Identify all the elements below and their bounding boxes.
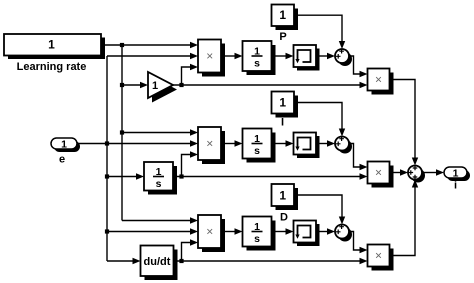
wire: saturation S2 to sum A2 [316,140,335,146]
sum A3 (round, + +) [335,224,352,241]
wire: saturation S3 to sum A3 [316,228,335,234]
wire: Learning rate output to product P1 input 1 [101,42,198,48]
svg-text:1: 1 [61,139,67,151]
derivative block du/dt [141,246,178,281]
saturation S3 (loop icon block) [294,221,320,247]
node: gain input junction [120,83,124,87]
integrator I3 (1/s) [243,217,276,251]
node: e bus to mid integrator junction [105,174,109,178]
svg-text:P: P [279,31,286,43]
product M3 (2-input multiply) [368,245,394,271]
gain block (triangle, value 1) [148,72,177,103]
wire: derivative tap to product P3 input 3 [182,239,199,261]
wire: e bus to integrator I4 input [107,173,144,179]
wire: e bus to derivative input [107,258,141,264]
wire: constant D to sum A3 top input [294,195,345,225]
svg-text:i: i [454,180,457,192]
wire: learning-rate bus to gain input [122,82,148,88]
wire: integrator I4 tap to product P2 input 3 [182,151,199,176]
wire: e bus to product P3 input 2 [107,228,198,234]
output port i (oval 1) [444,167,470,181]
wire: e bus to product P1 input 2 [107,53,198,59]
node: learning-rate row2 junction [120,130,124,134]
integrator I2 (1/s) [243,129,276,163]
sum A1 (round, + +) [335,49,352,66]
integrator I1 (1/s) [243,41,276,75]
wire: product P2 to integrator I2 [221,140,243,146]
constant block P (value 1) [272,5,299,31]
svg-text:1: 1 [279,8,286,22]
svg-text:×: × [375,166,382,180]
wire: integrator I2 to saturation S2 [272,140,294,146]
svg-text:e: e [59,154,65,166]
svg-text:s: s [254,58,260,70]
svg-text:D: D [280,212,288,224]
product M2 (2-input multiply) [368,162,394,188]
product P2 (3-input multiply) [198,127,225,164]
node: derivative output junction [179,259,183,263]
svg-text:s: s [254,233,260,245]
wire: saturation S1 to sum A1 [316,53,335,59]
wire: sum A1 output to product M1 upper input [349,56,368,77]
svg-text:×: × [206,137,213,151]
svg-text:s: s [156,178,162,190]
wire: gain output tap to product P1 input 3 [182,64,199,85]
product P1 (3-input multiply) [198,40,225,77]
constant block D (value 1) [272,184,299,210]
wire: product M2 output to final sum left input [390,169,409,175]
svg-text:1: 1 [48,38,55,52]
wire: sum A3 output to product M3 upper input [349,232,368,254]
wire: learning-rate bus to product P2 input 1 [122,129,198,135]
wire: final sum output to output port i [422,169,444,175]
svg-text:du/dt: du/dt [144,256,171,268]
wire: gain output bus to product M1 lower input [173,82,368,88]
constant block Learning rate (value 1) [4,34,105,59]
svg-text:×: × [206,225,213,239]
node: integrator I4 output junction [179,174,183,178]
svg-text:1: 1 [279,189,286,203]
wire: product M1 output to final sum top input [390,80,419,166]
product P3 (3-input multiply) [198,215,225,252]
wire: e vertical bus [106,56,108,261]
node: e bus row3 junction [105,229,109,233]
svg-text:×: × [206,49,213,63]
saturation S1 (loop icon block) [294,45,320,71]
svg-text:s: s [254,145,260,157]
constant block I (value 1) [272,92,299,118]
svg-text:I: I [281,117,284,129]
wire: product P3 to integrator I3 [221,228,243,234]
final sum A4 (round, + + +) [408,166,425,183]
wire: integrator I3 to saturation S3 [272,228,294,234]
wire: sum A2 output to product M2 upper input [349,144,368,171]
wire: product P1 to integrator I1 [221,53,243,59]
svg-text:1: 1 [152,80,158,92]
wire: constant P to sum A1 top input [294,15,345,49]
svg-text:×: × [375,249,382,263]
node: gain output junction [179,83,183,87]
wire: learning-rate vertical bus [121,45,123,221]
svg-text:1: 1 [453,168,459,180]
wire: e output to product P2 input 2 [77,140,198,146]
product M1 (2-input multiply) [368,69,394,95]
node: e bus junction [105,141,109,145]
wire: constant I to sum A2 top input [294,103,345,137]
saturation S2 (loop icon block) [294,133,320,159]
sum A2 (round, + +) [335,136,352,153]
wire: learning-rate bus to product P3 input 1 [122,217,198,223]
svg-text:×: × [375,73,382,87]
input port e (oval 1) [51,138,80,152]
integrator I4 (1/s, error integral) [144,162,177,195]
wire: integrator I1 to saturation S1 [272,53,294,59]
wire: derivative output bus to product M3 lower input [174,258,368,264]
svg-text:1: 1 [279,96,286,110]
wire: product M3 output to final sum bottom input [390,180,419,256]
svg-text:Learning rate: Learning rate [17,61,87,73]
wire: integrator I4 output bus to product M2 lower input [173,173,368,179]
node: learning-rate bus junction [120,43,124,47]
